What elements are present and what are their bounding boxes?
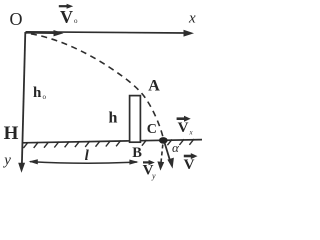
svg-text:h: h <box>109 110 118 127</box>
svg-text:α: α <box>172 140 180 155</box>
svg-text:o: o <box>74 17 78 25</box>
svg-text:H: H <box>4 123 19 144</box>
svg-text:x: x <box>188 10 196 26</box>
svg-text:B: B <box>132 145 142 161</box>
svg-text:o: o <box>43 93 47 101</box>
svg-text:y: y <box>2 153 11 169</box>
svg-text:V: V <box>178 120 189 136</box>
svg-text:y: y <box>151 172 156 181</box>
svg-text:C: C <box>147 122 157 137</box>
svg-text:V: V <box>60 7 73 27</box>
svg-text:A: A <box>148 77 160 94</box>
svg-text:O: O <box>10 9 23 29</box>
svg-text:V: V <box>184 157 195 173</box>
svg-text:h: h <box>33 85 42 101</box>
